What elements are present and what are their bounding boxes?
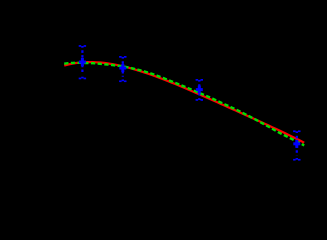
top cap: [79, 45, 86, 48]
vertical dashed line: [81, 50, 83, 74]
error bar 2 (x=122.8): [119, 56, 126, 82]
error bar 4 (x=296.8): [293, 130, 300, 160]
red solid fit curve: [64, 62, 304, 143]
green dashed model curve: [64, 63, 304, 146]
bottom cap: [79, 77, 86, 80]
error bar 1 (x=82.4): [79, 45, 86, 79]
error bar 3 (x=199.3): [196, 79, 203, 101]
center plus marker: [79, 58, 86, 66]
